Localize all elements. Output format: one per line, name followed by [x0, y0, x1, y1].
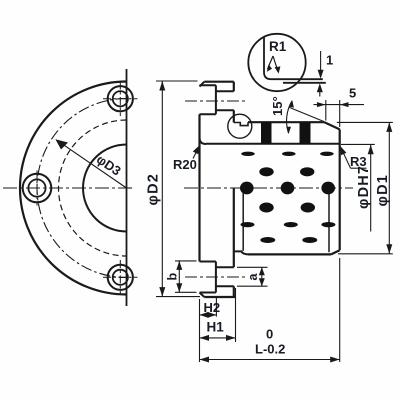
R1 radius arrows: [268, 56, 274, 69]
detail surface line: [283, 82, 326, 84]
svg-text:0: 0: [266, 327, 273, 342]
detail indicator circle: [228, 114, 252, 138]
dimension 5 (chamfer): [314, 100, 365, 127]
plug dots row 1: [241, 152, 334, 156]
svg-text:a: a: [246, 273, 260, 281]
svg-text:R1: R1: [269, 39, 287, 54]
flange outer circle (half): [20, 82, 126, 295]
plug dots row 2: [259, 167, 314, 176]
dimension phi-D1: [337, 122, 393, 253]
svg-text:1: 1: [326, 53, 333, 68]
body OD bottom line: [248, 253, 331, 255]
flange left face: [198, 114, 200, 261]
plug dots row 5: [241, 222, 336, 227]
dimension phi-DH7: [341, 144, 375, 231]
bore line: [206, 143, 340, 145]
plug dots row 4: [259, 203, 315, 213]
svg-text:H2: H2: [204, 300, 221, 315]
bolt hole bottom (front view): [103, 260, 138, 295]
dimension H2: [200, 296, 217, 362]
cut line: [126, 69, 128, 306]
bolt hole centerline (top): [185, 100, 247, 102]
flange top chamfer: [200, 82, 205, 87]
flange top edge: [204, 81, 234, 83]
flange bottom edge: [204, 296, 235, 298]
plug dots row 6: [260, 237, 317, 243]
detail groove profile: [264, 38, 323, 80]
svg-text:R20: R20: [173, 157, 197, 172]
dimension b: [175, 261, 197, 292]
svg-text:15°: 15°: [270, 96, 285, 116]
svg-text:φDH7: φDH7: [356, 165, 372, 209]
dimension leader phi-D3: [55, 139, 126, 188]
body bottom-left fillet silhouette: [235, 251, 248, 254]
sectioned graphite plug 2: [300, 122, 311, 144]
bolt counterbore (top, section): [200, 85, 216, 114]
flange right face lower segments: [233, 188, 235, 297]
plug dots row 3 (on centerline): [240, 182, 335, 195]
svg-text:b: b: [166, 273, 180, 281]
15deg chamfer (top right): [324, 122, 339, 129]
body end face: [339, 129, 341, 250]
dimension L with tolerance: [200, 258, 340, 362]
sectioned graphite plug 1: [261, 122, 272, 144]
hidden body OD circle (dashed, half): [59, 120, 127, 256]
chamfer tangent edge line (external view): [328, 188, 330, 252]
bolt hole centerline (bottom): [185, 276, 246, 278]
main centerline: [184, 187, 353, 189]
detail circle R1: [248, 34, 305, 91]
svg-text:φD2: φD2: [146, 173, 162, 206]
R1 undercut notch at flange/body junction: [234, 122, 248, 125]
dimension 1 (groove depth): [319, 51, 322, 97]
dimension H1: [200, 288, 236, 342]
fillet tangent edge line (external view): [242, 188, 244, 251]
dimension phi-D2: [156, 81, 200, 297]
bottom end chamfer: [331, 250, 340, 254]
bolt hole (top, section): [216, 91, 234, 110]
svg-text:φD3: φD3: [94, 152, 124, 179]
svg-text:5: 5: [349, 86, 356, 101]
bolt hole left (front view): [23, 171, 52, 206]
dimension 15deg: [289, 107, 324, 122]
svg-text:φD1: φD1: [375, 174, 391, 207]
svg-text:H1: H1: [207, 320, 225, 335]
dimension a: [237, 267, 268, 286]
bore circle (half): [83, 145, 126, 232]
flange right face upper segments: [233, 82, 235, 123]
bolt circle D3 (dash-dot, half): [37, 99, 126, 278]
R20 fillet arc (flange face to bore): [200, 138, 207, 145]
bolt hole top (front view): [103, 82, 138, 117]
horizontal centerline front view: [3, 187, 135, 189]
body OD top line: [248, 121, 324, 123]
svg-text:L-0.2: L-0.2: [255, 342, 285, 357]
bolt hole (bottom): [216, 267, 234, 286]
flange left face lower chamfer: [200, 293, 205, 298]
bolt counterbore (bottom): [200, 262, 216, 293]
